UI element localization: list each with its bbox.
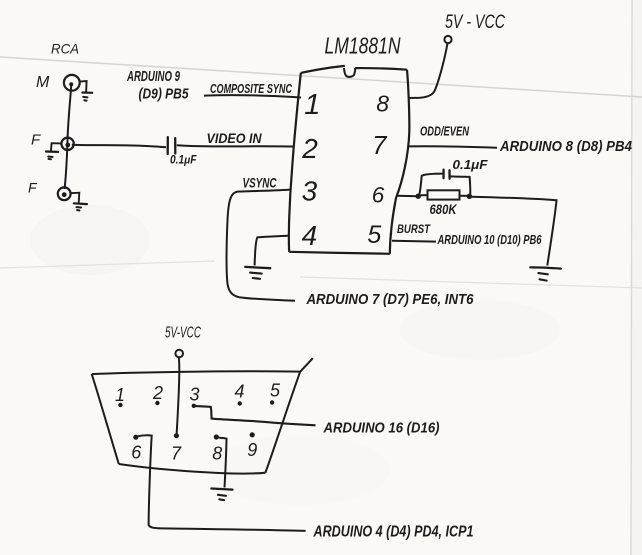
svg-text:5: 5 [270, 381, 281, 401]
terminal T1 5V [444, 36, 451, 43]
label VIDEO IN [207, 130, 263, 146]
DB9 pin 7 digit [171, 444, 182, 464]
svg-text:ARDUINO 16 (D16): ARDUINO 16 (D16) [323, 420, 440, 437]
label 0.1uF C2 [453, 157, 489, 172]
DB9 pin 2 digit [152, 383, 163, 403]
pin 8 digit [376, 91, 389, 117]
wire composite sync to pin 1 [204, 95, 301, 97]
junction node B [467, 194, 472, 199]
label ARDUINO 16 (D16) [323, 420, 440, 437]
ground G3 [211, 489, 232, 501]
wire DB9 pin 3 to ARDUINO 16 [195, 406, 316, 425]
label VSYNC [243, 175, 278, 191]
wire 5V to pin 8 [409, 43, 448, 98]
ground at J2 [46, 143, 61, 159]
label M [36, 74, 50, 91]
DB9 pin 8 dot [214, 434, 219, 439]
DB9 pin 5 dot [270, 400, 274, 404]
DB9 pin 8 digit [212, 444, 222, 464]
DB9 pin 3 dot [192, 404, 196, 408]
DB9 pin 5 digit [270, 381, 281, 401]
label ARDUINO 8 (D8) PB4 [499, 138, 632, 155]
DB9 pin 6 digit [131, 443, 142, 463]
svg-text:7: 7 [372, 132, 387, 160]
DB9 pin 9 dot [250, 432, 255, 437]
label ARDUINO 10 (D10) PB6 [437, 232, 542, 247]
svg-text:BURST: BURST [397, 222, 431, 236]
junction node A [416, 194, 421, 199]
svg-text:4: 4 [302, 220, 318, 251]
resistor R1 680K [421, 190, 469, 199]
label 0.1uF C1 [170, 155, 197, 167]
label ARDUINO 7 (D7) PE6, INT6 [306, 291, 474, 308]
label F [31, 132, 41, 149]
label 5V-VCC top [445, 12, 505, 33]
svg-text:F: F [28, 180, 38, 196]
pin 6 digit [372, 183, 385, 208]
svg-text:F: F [31, 132, 41, 149]
svg-text:LM1881N: LM1881N [325, 33, 401, 59]
DB9 pin 1 dot [118, 403, 122, 407]
pin 5 digit [367, 221, 381, 249]
label COMPOSITE SYNC [210, 81, 292, 96]
svg-text:2: 2 [152, 383, 163, 403]
DB9 pin 3 digit [189, 385, 199, 405]
label LM1881N [325, 33, 401, 59]
svg-text:ARDUINO 4 (D4) PD4, ICP1: ARDUINO 4 (D4) PD4, ICP1 [313, 524, 474, 541]
label ARDUINO 9 (D9) PB5 [126, 69, 189, 103]
pin 2 digit [301, 133, 318, 164]
capacitor C1 [168, 137, 176, 154]
svg-text:(D9) PB5: (D9) PB5 [139, 87, 190, 103]
label F2 [28, 180, 38, 196]
wire C1 to pin 2 [177, 145, 294, 146]
label BURST [397, 222, 431, 236]
wire T2 to DB9 pin 7 [177, 358, 180, 435]
svg-text:VSYNC: VSYNC [243, 175, 278, 191]
wire pin 7 to ARDUINO 8 [409, 146, 497, 148]
DB9 connector body [92, 358, 313, 473]
wire pin 3 VSYNC down to ARDUINO 7 [227, 190, 295, 301]
pin 1 digit [304, 89, 320, 121]
svg-text:0.1μF: 0.1μF [453, 157, 489, 172]
DB9 pin 1 digit [115, 385, 125, 405]
terminal T2 5V [175, 350, 183, 358]
svg-text:5V - VCC: 5V - VCC [445, 12, 505, 33]
svg-text:VIDEO IN: VIDEO IN [207, 130, 263, 146]
svg-text:5V-VCC: 5V-VCC [165, 325, 201, 342]
label RCA [51, 41, 79, 57]
pin 4 digit [302, 220, 318, 251]
svg-text:2: 2 [301, 133, 318, 164]
wire DB9 pin 6 to ARDUINO 4 [136, 435, 306, 531]
svg-text:7: 7 [171, 444, 182, 464]
svg-text:3: 3 [302, 176, 318, 207]
capacitor C2 branch [420, 170, 471, 194]
DB9 pin 7 dot [174, 433, 179, 438]
wire pin 4 to ground [255, 236, 289, 266]
svg-text:9: 9 [247, 440, 257, 460]
RCA jack J1 (M) [64, 75, 80, 91]
DB9 pin 6 dot [133, 435, 138, 440]
svg-text:ARDUINO 10 (D10) PB6: ARDUINO 10 (D10) PB6 [437, 232, 542, 247]
svg-text:1: 1 [304, 89, 320, 121]
svg-text:ARDUINO 7 (D7) PE6, INT6: ARDUINO 7 (D7) PE6, INT6 [306, 291, 474, 308]
DB9 pin 2 dot [155, 401, 159, 405]
svg-text:1: 1 [115, 385, 125, 405]
wire pin 6 to junction [397, 195, 418, 198]
label ARDUINO 4 (D4) PD4, ICP1 [313, 524, 474, 541]
pin 3 digit [302, 176, 318, 207]
svg-text:4: 4 [234, 382, 244, 402]
label 5V-VCC DB9 [165, 325, 201, 342]
svg-text:RCA: RCA [51, 41, 79, 57]
wire pin 5 to ARDUINO 10 [392, 240, 436, 243]
DB9 pin 4 digit [234, 382, 244, 402]
label 680K [430, 201, 458, 217]
svg-text:COMPOSITE SYNC: COMPOSITE SYNC [210, 81, 292, 96]
RCA jack J2 (F) [61, 138, 73, 150]
DB9 pin 9 digit [247, 440, 257, 460]
RCA jack J3 (F) [58, 187, 71, 200]
svg-text:M: M [36, 74, 50, 91]
ground at J3 [71, 193, 87, 211]
svg-text:8: 8 [376, 91, 389, 117]
IC U1 LM1881N body [289, 66, 409, 254]
ground at J1 [80, 81, 93, 101]
wire J2 to capacitor C1 [72, 145, 166, 148]
label ODD/EVEN [420, 125, 470, 139]
svg-text:0.1μF: 0.1μF [170, 155, 197, 167]
svg-text:680K: 680K [430, 201, 458, 217]
wire junction B to ground G2 [471, 197, 557, 266]
svg-text:6: 6 [372, 183, 385, 208]
svg-text:ODD/EVEN: ODD/EVEN [420, 125, 470, 139]
svg-text:6: 6 [131, 443, 142, 463]
wire DB9 pin 8 to ground G3 [217, 437, 227, 487]
DB9 pin 4 dot [238, 401, 242, 405]
svg-text:5: 5 [367, 221, 381, 249]
svg-text:ARDUINO 8 (D8) PB4: ARDUINO 8 (D8) PB4 [499, 138, 632, 155]
svg-text:3: 3 [189, 385, 199, 405]
wire J1 to J3 vertical [65, 86, 72, 190]
svg-text:8: 8 [212, 444, 222, 464]
pin 7 digit [372, 132, 387, 160]
ground G2 [530, 267, 561, 280]
svg-text:ARDUINO 9: ARDUINO 9 [126, 69, 180, 85]
ground G1 below pin 4 [245, 267, 270, 279]
